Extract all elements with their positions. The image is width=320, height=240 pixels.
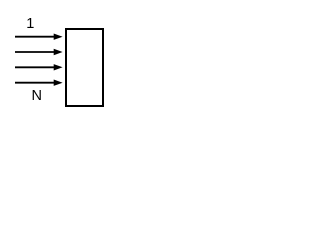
arrowhead input N — [54, 80, 63, 86]
wire (input 1 shaft) — [15, 36, 57, 38]
arrowhead input 3 — [54, 64, 63, 70]
arrowhead input 2 — [54, 49, 63, 55]
arrowhead input 1 — [54, 34, 63, 40]
svg-text:N: N — [32, 88, 42, 104]
svg-text:1: 1 — [26, 16, 34, 32]
wire (input 2 shaft) — [15, 51, 57, 53]
wire (input N shaft) — [15, 82, 57, 84]
block U1 (rectangle body) — [66, 29, 103, 106]
wire (input 3 shaft) — [15, 66, 57, 68]
